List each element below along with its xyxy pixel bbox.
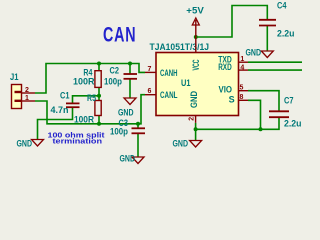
svg-text:2: 2 (25, 87, 29, 94)
ground symbol bottom left (32, 140, 44, 147)
wire CANL from J1 pin 1 to U1 pin 6 (35, 95, 145, 124)
svg-text:C7: C7 (284, 96, 294, 106)
svg-text:+5V: +5V (186, 6, 204, 16)
connector J1 (12, 85, 22, 109)
svg-text:100p: 100p (110, 127, 128, 137)
pin 5 VIO (239, 90, 249, 92)
wire C3 bottom to ground (137, 134, 139, 157)
svg-text:100R: 100R (74, 114, 94, 124)
capacitor C2 (124, 73, 138, 75)
junction node S gnd (259, 127, 263, 131)
ground symbol below C2 (124, 98, 136, 105)
wire U1 GND pin down (195, 123, 197, 141)
pin 1 TXD (239, 61, 249, 63)
svg-text:7: 7 (148, 66, 152, 73)
svg-text:CANH: CANH (160, 68, 178, 78)
capacitor C4 (259, 19, 276, 21)
IC U1 TJA1051T (156, 53, 239, 116)
capacitor C3 (132, 127, 146, 129)
wire C3 top (137, 124, 139, 128)
svg-text:1: 1 (25, 95, 29, 102)
wire C2 bottom to ground (129, 79, 131, 98)
ground symbol below C4 (261, 51, 273, 58)
pin 2 GND bottom (195, 116, 197, 123)
wire R5 bottom (98, 116, 100, 124)
wire RXD pin 4 (248, 69, 302, 71)
svg-text:GND: GND (189, 91, 199, 108)
svg-text:4: 4 (240, 65, 244, 72)
pin 8 S (239, 99, 249, 101)
junction node R4 top (97, 62, 101, 66)
svg-text:8: 8 (240, 94, 244, 101)
svg-text:2: 2 (189, 117, 196, 121)
svg-text:S: S (229, 94, 235, 104)
svg-text:VIO: VIO (219, 85, 233, 95)
pin 2 stub J1 (22, 92, 36, 94)
wire ground rail to C7 bottom (196, 117, 279, 129)
svg-text:J1: J1 (10, 72, 19, 82)
wire C2 top (129, 64, 131, 75)
junction node C2 top (128, 62, 132, 66)
svg-text:CANL: CANL (160, 90, 178, 100)
ground symbol below C3 (132, 157, 144, 164)
svg-text:4.7n: 4.7n (51, 105, 69, 115)
power +5V (195, 20, 197, 37)
pin 4 RXD (239, 69, 249, 71)
wire VIO pin 5 to C7 top (248, 91, 279, 111)
svg-text:C4: C4 (277, 1, 287, 11)
svg-text:U1: U1 (181, 78, 191, 88)
junction node +5V (194, 35, 198, 39)
pin 3 VCC top (195, 37, 197, 53)
wire S pin 8 down (248, 100, 261, 129)
svg-text:100R: 100R (73, 76, 95, 86)
svg-text:GND: GND (118, 108, 134, 118)
wire TXD pin 1 (248, 61, 302, 63)
svg-text:CAN: CAN (103, 23, 136, 46)
pin 1 stub J1 (22, 100, 36, 102)
svg-text:VCC: VCC (191, 59, 201, 70)
resistor R5 (95, 101, 101, 116)
wire CANH rail from J1 pin 2 to U1 pin 7 (35, 64, 145, 94)
junction node C3 top (136, 122, 140, 126)
resistor R4 (95, 71, 101, 88)
wire C4 bottom to ground (266, 26, 268, 51)
svg-text:2.2u: 2.2u (284, 119, 302, 129)
junction node R4-R5 midpoint (97, 94, 101, 98)
wire R4 top (98, 64, 100, 71)
svg-text:termination: termination (53, 137, 103, 146)
ground symbol below U1 (190, 141, 202, 148)
svg-text:GND: GND (120, 154, 136, 164)
wire R4 bottom to R5 top (98, 87, 100, 100)
capacitor C7 (269, 110, 289, 112)
svg-text:C2: C2 (110, 66, 120, 76)
svg-text:GND: GND (173, 139, 189, 149)
wire C1 bottom to ground (38, 108, 73, 140)
wire +5V to C4 (196, 6, 267, 38)
wire node to C1 top (73, 96, 100, 103)
svg-text:5: 5 (240, 85, 244, 92)
svg-text:2.2u: 2.2u (277, 29, 295, 39)
svg-text:R5: R5 (87, 93, 96, 103)
svg-text:6: 6 (148, 88, 152, 95)
svg-text:GND: GND (17, 139, 33, 149)
svg-text:TJA1051T/3/1J: TJA1051T/3/1J (150, 42, 210, 52)
svg-text:C1: C1 (60, 91, 70, 101)
svg-text:RXD: RXD (218, 62, 232, 72)
pin 6 CANL (145, 94, 156, 96)
svg-text:GND: GND (246, 48, 262, 58)
svg-text:100p: 100p (104, 76, 122, 86)
junction node R5 bottom (97, 122, 101, 126)
pin 7 CANH (145, 71, 156, 73)
capacitor C1 (66, 102, 80, 104)
junction node U1 gnd (194, 127, 198, 131)
svg-text:1: 1 (240, 56, 244, 63)
